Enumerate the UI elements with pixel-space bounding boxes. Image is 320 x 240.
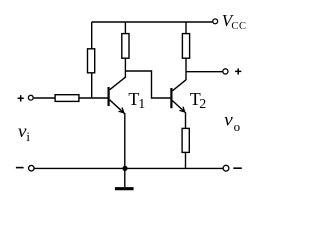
svg-text:1: 1 [138, 97, 145, 112]
svg-text:CC: CC [231, 21, 246, 32]
svg-text:2: 2 [199, 97, 206, 112]
svg-text:v: v [224, 110, 233, 130]
svg-text:o: o [234, 119, 241, 134]
svg-text:v: v [18, 121, 27, 141]
svg-text:i: i [26, 129, 30, 144]
